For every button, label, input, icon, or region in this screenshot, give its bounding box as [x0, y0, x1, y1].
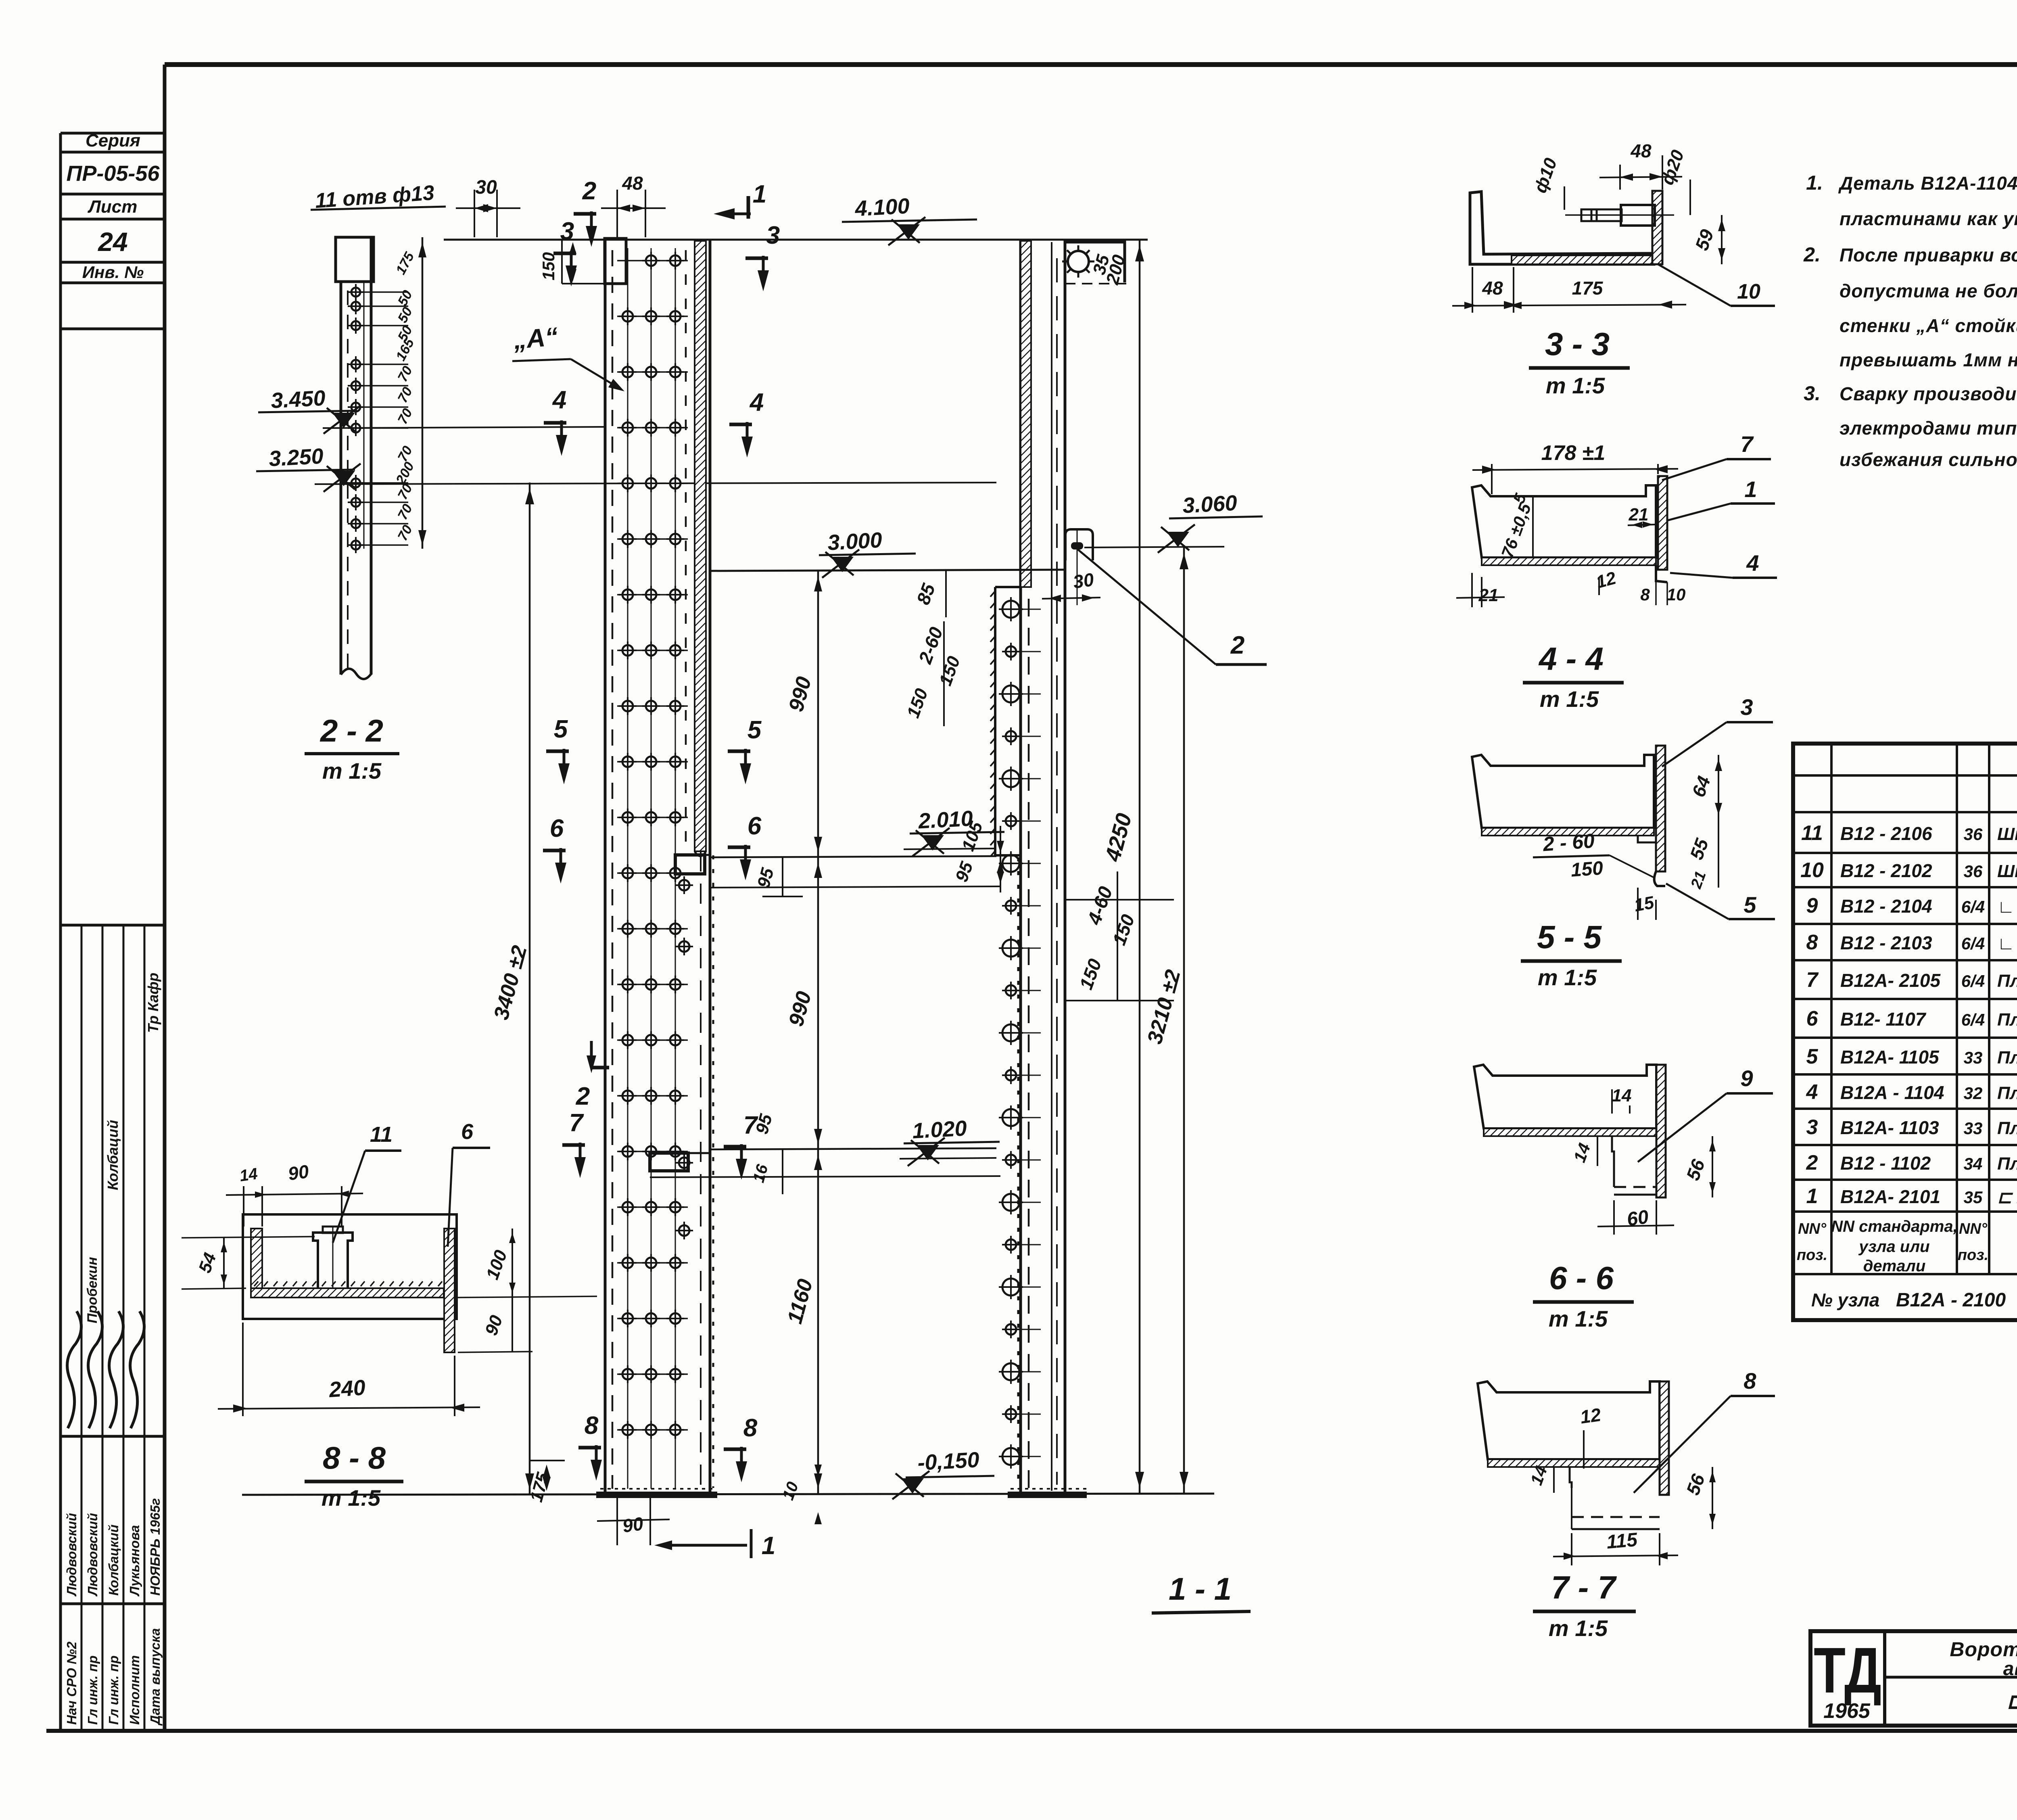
svg-text:В12 - 2102: В12 - 2102 — [1840, 860, 1932, 881]
section 3-3 leader 10 — [1658, 264, 1731, 306]
svg-text:1: 1 — [753, 180, 766, 208]
svg-text:4: 4 — [749, 389, 764, 416]
section 2-2 break — [341, 669, 371, 679]
step plate at 1.020 level — [650, 1153, 688, 1171]
cut marker 1 bottom — [750, 1529, 753, 1558]
svg-text:В12 - 2104: В12 - 2104 — [1840, 896, 1932, 917]
svg-text:№ узла: № узла — [1811, 1289, 1879, 1310]
svg-text:11: 11 — [1801, 821, 1823, 845]
svg-text:допустима не более 2мм на: допустима не более 2мм на всей длине; ск… — [1840, 280, 2017, 301]
right column outer — [1019, 240, 1022, 1493]
svg-text:Пластина: Пластина — [1997, 1048, 2017, 1068]
svg-text:21: 21 — [1629, 505, 1649, 524]
cut marker 2 top — [574, 212, 596, 216]
svg-text:NN°: NN° — [1959, 1220, 1988, 1237]
svg-text:Пластина -8×12×2080: Пластина -8×12×2080 — [1997, 1083, 2017, 1103]
svg-text:10: 10 — [1737, 280, 1760, 303]
section 6-6 leader 9 — [1638, 1093, 1727, 1162]
section 7-7 leader 8 — [1634, 1396, 1731, 1493]
right column left band (plate 3) — [994, 587, 996, 855]
svg-text:NN°: NN° — [1798, 1220, 1827, 1237]
svg-text:48: 48 — [1630, 140, 1652, 161]
svg-text:m 1:5: m 1:5 — [1549, 1615, 1608, 1641]
svg-text:30: 30 — [475, 177, 497, 198]
svg-text:2.: 2. — [1803, 243, 1821, 266]
svg-text:m 1:5: m 1:5 — [1549, 1306, 1608, 1331]
svg-text:6/4: 6/4 — [1961, 972, 1985, 990]
svg-text:32: 32 — [1964, 1084, 1983, 1103]
svg-text:В12 - 2103: В12 - 2103 — [1840, 932, 1932, 953]
long dim 3400 line — [529, 483, 531, 1495]
section 8-8 left flange — [251, 1229, 262, 1289]
svg-text:Дата выпуска: Дата выпуска — [148, 1628, 163, 1726]
svg-text:48: 48 — [622, 173, 643, 194]
cut marker 2 bottom — [590, 1041, 593, 1068]
mid dim line 990/990/1160 — [817, 571, 819, 1494]
svg-text:4: 4 — [1746, 550, 1759, 576]
svg-text:8: 8 — [1806, 931, 1818, 954]
section 8-8 leaders 11 6 — [333, 1151, 365, 1243]
svg-text:36: 36 — [1964, 862, 1983, 881]
svg-text:36: 36 — [1964, 825, 1983, 844]
svg-text:8 - 8: 8 - 8 — [323, 1440, 386, 1475]
gear symbol — [1062, 245, 1094, 278]
weld serration left column right edge — [712, 855, 714, 1488]
svg-text:1: 1 — [762, 1532, 775, 1560]
section 5-5 leaders 3 5 — [1662, 722, 1727, 767]
leader to 2 — [1078, 550, 1216, 664]
svg-text:4: 4 — [552, 386, 566, 414]
svg-text:8: 8 — [585, 1412, 599, 1440]
svg-text:1965: 1965 — [1823, 1699, 1871, 1723]
section 2-2 holes — [364, 291, 408, 293]
svg-text:48: 48 — [1482, 278, 1503, 299]
long dim 3210 — [1183, 547, 1185, 1494]
svg-text:Исполнит: Исполнит — [127, 1655, 142, 1725]
section 8-8 weld ticks — [254, 1281, 258, 1286]
svg-text:m 1:5: m 1:5 — [322, 1485, 381, 1511]
weld serration right column left edge — [1017, 857, 1019, 1489]
svg-text:7: 7 — [1806, 968, 1819, 992]
base line — [242, 1494, 1214, 1495]
svg-text:2: 2 — [582, 177, 596, 205]
svg-text:15: 15 — [1633, 892, 1656, 915]
svg-text:2 - 60: 2 - 60 — [1542, 830, 1595, 856]
1.020 level line — [710, 1148, 996, 1149]
svg-text:33: 33 — [1964, 1119, 1983, 1138]
3.000 level line — [710, 570, 1065, 571]
svg-text:стенки „А“ стойки вокруг прод: стенки „А“ стойки вокруг продольной оси … — [1840, 315, 2017, 336]
svg-text:8: 8 — [1640, 585, 1650, 604]
svg-text:⊏ 22 ×4240: ⊏ 22 ×4240 — [1997, 1187, 2017, 1207]
svg-text:6/4: 6/4 — [1961, 1010, 1985, 1029]
svg-text:4: 4 — [1806, 1080, 1818, 1104]
section 7-7 channel — [1478, 1381, 1660, 1459]
svg-text:115: 115 — [1606, 1529, 1639, 1553]
svg-text:2: 2 — [1806, 1151, 1818, 1174]
section 4-4 channel — [1472, 485, 1656, 558]
svg-text:9: 9 — [1740, 1066, 1753, 1091]
svg-text:В12А- 1103: В12А- 1103 — [1840, 1117, 1939, 1138]
svg-text:12: 12 — [1579, 1404, 1602, 1428]
svg-text:5: 5 — [1806, 1045, 1819, 1068]
svg-text:3.250: 3.250 — [268, 444, 324, 471]
svg-text:90: 90 — [621, 1513, 645, 1537]
parts table grid — [1793, 744, 2017, 1320]
svg-text:ТД: ТД — [1814, 1634, 1881, 1706]
svg-text:8: 8 — [1743, 1368, 1756, 1394]
svg-text:6/4: 6/4 — [1961, 897, 1985, 916]
svg-text:6: 6 — [748, 812, 762, 840]
svg-text:Деталь В12А-1104 приварить: Деталь В12А-1104 приварить с выдержкой д… — [1838, 173, 2017, 194]
left column outer — [604, 240, 607, 1493]
svg-text:5: 5 — [1743, 892, 1756, 917]
svg-text:3.450: 3.450 — [270, 386, 326, 413]
section 3-3 left flange — [1470, 192, 1654, 264]
clamp at 3.060 — [1065, 529, 1093, 560]
right column base plate — [1008, 1492, 1087, 1498]
dims 95 at 2.010 — [782, 857, 783, 896]
svg-text:Колбацкий: Колбацкий — [106, 1525, 121, 1596]
svg-text:автоматическим управлением: автоматическим управлением — [2003, 1658, 2017, 1680]
svg-text:3: 3 — [560, 217, 574, 245]
svg-text:поз.: поз. — [1958, 1247, 1988, 1264]
svg-text:3: 3 — [766, 221, 780, 249]
svg-text:-0,150: -0,150 — [917, 1448, 980, 1475]
svg-text:m 1:5: m 1:5 — [322, 758, 382, 784]
svg-text:33: 33 — [1964, 1048, 1983, 1067]
svg-text:Штырь ф20: Штырь ф20 — [1997, 861, 2017, 881]
section 3-3 web hatch — [1512, 255, 1653, 264]
section 8-8 right flange — [444, 1229, 455, 1352]
svg-text:Лукьянова: Лукьянова — [127, 1525, 142, 1596]
svg-text:1.020: 1.020 — [912, 1116, 967, 1143]
svg-text:3: 3 — [1740, 694, 1753, 720]
svg-text:30: 30 — [1072, 569, 1095, 593]
svg-text:4.100: 4.100 — [854, 194, 910, 221]
cut marker 1 top — [747, 196, 750, 219]
svg-text:1 - 1: 1 - 1 — [1169, 1571, 1232, 1607]
svg-text:1: 1 — [1744, 476, 1757, 502]
svg-text:6: 6 — [461, 1120, 474, 1144]
svg-text:Гл инж. пр: Гл инж. пр — [106, 1655, 121, 1725]
right column hatch strip top — [1021, 241, 1031, 587]
section 3-3 right flange — [1652, 191, 1662, 264]
svg-text:Колбаций: Колбаций — [104, 1120, 121, 1190]
cut markers right side of left column — [729, 423, 752, 426]
section 5-5 angle below — [1654, 871, 1665, 886]
svg-text:⊏ в сборе В12А - 2100: ⊏ в сборе В12А - 2100 — [2007, 1688, 2017, 1713]
svg-text:узла или: узла или — [1858, 1238, 1929, 1256]
svg-text:90: 90 — [287, 1161, 310, 1185]
svg-text:Тр Кафр: Тр Кафр — [145, 973, 161, 1033]
left column cap — [605, 238, 626, 284]
dim 150 cap — [561, 240, 563, 284]
svg-text:3 - 3: 3 - 3 — [1545, 326, 1610, 362]
svg-text:5: 5 — [554, 715, 568, 743]
svg-text:Инв. №: Инв. № — [82, 263, 144, 282]
svg-text:3.000: 3.000 — [827, 528, 883, 555]
section 6-6 step box — [1612, 1136, 1614, 1187]
frame border — [165, 62, 2017, 67]
16 lower line at 1.020 — [650, 1176, 1000, 1177]
section 2-2 dim line vertical — [422, 237, 424, 549]
left column inner strip lower — [700, 851, 702, 1491]
right column holes — [1002, 601, 1019, 618]
svg-text:1: 1 — [1806, 1185, 1818, 1208]
step plate at 2.010 level — [675, 855, 705, 874]
svg-text:„А“: „А“ — [512, 322, 559, 354]
section 2-2 column cap — [336, 237, 374, 282]
svg-text:10: 10 — [1667, 585, 1686, 604]
svg-text:∟ 56×36×4 С=115: ∟ 56×36×4 С=115 — [1997, 934, 2017, 953]
svg-text:НОЯБРЬ 1965г: НОЯБРЬ 1965г — [148, 1498, 163, 1596]
svg-text:Пластина - 6×120×3140: Пластина - 6×120×3140 — [1997, 1118, 2017, 1138]
section 3-3 dims bottom — [1472, 267, 1473, 313]
svg-text:150: 150 — [539, 252, 558, 280]
section 8-8 outer box — [243, 1214, 457, 1319]
dim 48 top — [616, 190, 618, 237]
svg-text:Людвовский: Людвовский — [85, 1513, 100, 1596]
svg-text:5: 5 — [748, 716, 762, 744]
dims 16/95 at 1.020 — [782, 1149, 783, 1194]
stamp block grid — [61, 924, 165, 927]
svg-text:В12 - 2106: В12 - 2106 — [1840, 823, 1932, 844]
svg-text:После приварки всех элемент: После приварки всех элементов: непрямоли… — [1840, 244, 2017, 265]
left column base plate — [596, 1492, 717, 1498]
svg-text:В12А - 2100: В12А - 2100 — [1896, 1289, 2006, 1311]
svg-text:Сварку производить как указ: Сварку производить как указано на чертеж… — [1840, 383, 2017, 404]
extra offset holes — [679, 880, 689, 890]
svg-text:10: 10 — [1800, 859, 1824, 882]
thin plate strip hook at 2110 — [695, 851, 706, 856]
svg-text:Пластина -10×130×240: Пластина -10×130×240 — [1997, 1010, 2017, 1030]
right column top bracket — [1065, 242, 1125, 282]
svg-text:Серия: Серия — [86, 131, 140, 150]
section 4-4 leaders 7 1 4 — [1662, 459, 1727, 480]
svg-text:Пластина - 6×60×120: Пластина - 6×60×120 — [1997, 1154, 2017, 1174]
svg-text:175: 175 — [1572, 278, 1604, 299]
svg-text:детали: детали — [1863, 1257, 1926, 1275]
svg-text:В12А- 1105: В12А- 1105 — [1840, 1047, 1940, 1068]
svg-text:6/4: 6/4 — [1961, 934, 1985, 953]
elevation top line 4.100 — [444, 239, 1148, 241]
svg-text:2 - 2: 2 - 2 — [319, 713, 383, 748]
svg-text:7: 7 — [1740, 431, 1754, 457]
section 4-4 bottom-right angle — [1656, 565, 1667, 582]
svg-text:2: 2 — [576, 1082, 590, 1110]
svg-text:превышать 1мм на 1 пог. метр: превышать 1мм на 1 пог. метр и 2мм на вс… — [1840, 349, 2017, 370]
section 3-3 pin — [1621, 205, 1655, 226]
section 6-6 channel — [1474, 1065, 1656, 1128]
svg-text:4 - 4: 4 - 4 — [1538, 641, 1604, 677]
svg-text:избежания сильного нагрева: избежания сильного нагрева соединяемых э… — [1840, 449, 2017, 470]
svg-text:6: 6 — [550, 815, 564, 842]
section 3-3 dim 48 top — [1619, 165, 1621, 190]
svg-text:24: 24 — [97, 227, 127, 257]
left column hole grid — [627, 248, 628, 1489]
svg-text:3.: 3. — [1804, 382, 1821, 405]
svg-text:В12А- 2105: В12А- 2105 — [1840, 970, 1941, 991]
svg-text:m 1:5: m 1:5 — [1540, 686, 1599, 712]
long dim 4250 — [1139, 240, 1141, 1494]
svg-text:электродами типа Э42 ГОСТ: электродами типа Э42 ГОСТ 9467-60 с пере… — [1840, 418, 2017, 439]
left column hatch strip — [695, 241, 706, 851]
title block frame — [1810, 1631, 2017, 1726]
cut markers left side — [544, 421, 566, 425]
svg-text:Нач СРО №2: Нач СРО №2 — [64, 1641, 79, 1725]
section 5-5 channel — [1472, 755, 1654, 828]
svg-text:Пробекин: Пробекин — [85, 1257, 100, 1324]
section 7-7 step box — [1570, 1467, 1572, 1488]
svg-text:1.: 1. — [1806, 171, 1823, 194]
svg-text:Ворота подъемно- секционные: Ворота подъемно- секционные с — [1950, 1638, 2017, 1661]
cut marker 3 pair — [553, 252, 576, 255]
svg-text:В12А - 1104: В12А - 1104 — [1840, 1082, 1944, 1103]
svg-text:m 1:5: m 1:5 — [1538, 965, 1597, 990]
svg-text:9: 9 — [1806, 894, 1818, 917]
svg-text:m 1:5: m 1:5 — [1546, 373, 1605, 398]
svg-text:Пластина -5×14×2100: Пластина -5×14×2100 — [1997, 971, 2017, 991]
svg-text:5 - 5: 5 - 5 — [1537, 919, 1602, 955]
svg-text:35: 35 — [1964, 1188, 1983, 1207]
95 lower line at 2.010 — [710, 886, 1000, 888]
svg-text:NN стандарта,: NN стандарта, — [1831, 1218, 1957, 1235]
svg-text:3: 3 — [1806, 1116, 1818, 1139]
svg-text:В12- 1107: В12- 1107 — [1840, 1009, 1927, 1030]
svg-text:6: 6 — [1806, 1007, 1819, 1030]
svg-text:Штырь ф30: Штырь ф30 — [1997, 824, 2017, 844]
svg-text:11: 11 — [370, 1122, 393, 1147]
svg-text:пластинами как указано на: пластинами как указано на сборочном черт… — [1840, 208, 2017, 229]
dim 175 bottom left — [530, 1460, 565, 1461]
svg-text:2: 2 — [1230, 631, 1244, 659]
section 8-8 pin — [313, 1233, 353, 1288]
svg-text:Людвовский: Людвовский — [64, 1513, 79, 1596]
svg-text:∟ 56×36×4 С=60: ∟ 56×36×4 С=60 — [1997, 897, 2017, 917]
section 2-2 column body — [340, 282, 342, 675]
dim 90 bottom — [616, 1498, 618, 1545]
sidebar column — [59, 133, 62, 1731]
svg-text:В12 - 1102: В12 - 1102 — [1840, 1153, 1931, 1174]
svg-text:7 - 7: 7 - 7 — [1551, 1569, 1617, 1605]
svg-text:7: 7 — [569, 1109, 584, 1137]
svg-text:240: 240 — [328, 1375, 366, 1402]
svg-text:В12А- 2101: В12А- 2101 — [1840, 1186, 1940, 1207]
svg-text:поз.: поз. — [1797, 1247, 1827, 1264]
svg-text:34: 34 — [1964, 1154, 1983, 1173]
svg-text:14: 14 — [238, 1165, 259, 1185]
2.010 level line — [710, 856, 996, 857]
svg-text:14: 14 — [1612, 1086, 1632, 1105]
svg-text:6 - 6: 6 - 6 — [1549, 1260, 1614, 1296]
section 8-8 web — [251, 1288, 444, 1298]
svg-text:Лист: Лист — [88, 197, 138, 217]
stamp signatures — [67, 1311, 81, 1428]
svg-text:ПР-05-56: ПР-05-56 — [67, 161, 160, 186]
svg-text:Гл инж. пр: Гл инж. пр — [85, 1655, 100, 1725]
svg-text:3.060: 3.060 — [1182, 491, 1238, 518]
dim 30 top of 2-2 — [474, 190, 475, 237]
svg-text:150: 150 — [1570, 857, 1604, 881]
svg-text:8: 8 — [743, 1414, 758, 1442]
svg-text:178 ±1: 178 ±1 — [1541, 441, 1606, 465]
